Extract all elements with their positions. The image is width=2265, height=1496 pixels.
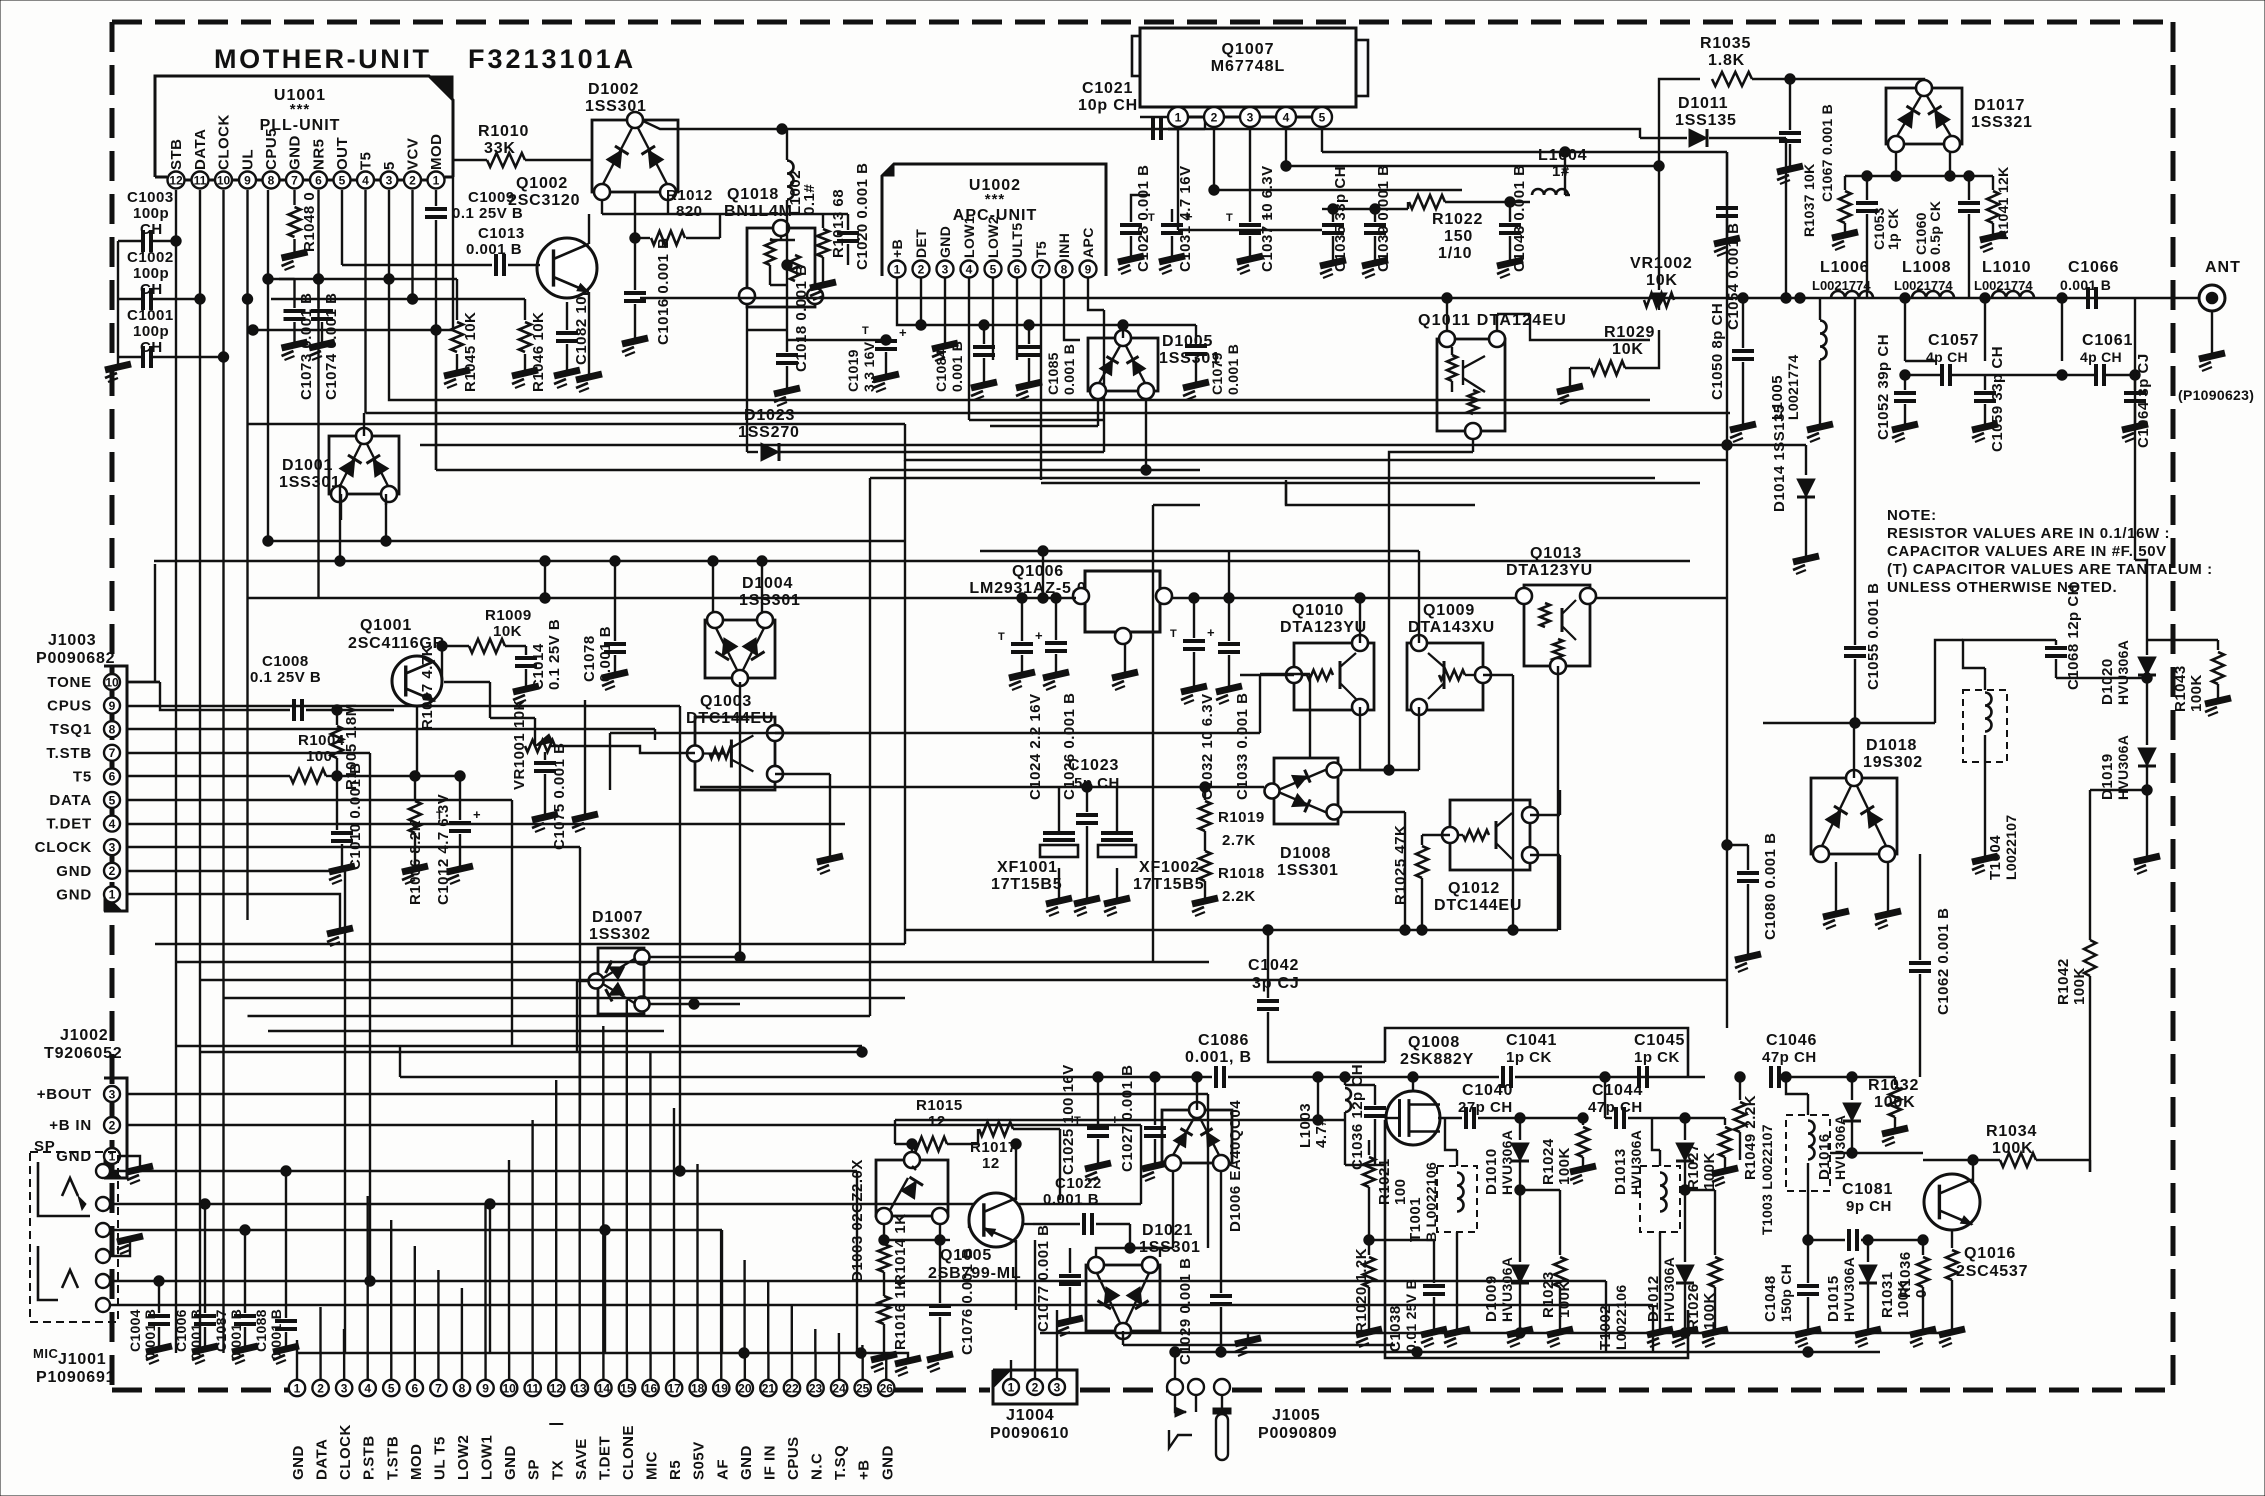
svg-text:R1048 0: R1048 0 [301, 192, 318, 252]
svg-text:R1019: R1019 [1218, 809, 1265, 826]
svg-text:5: 5 [1319, 110, 1326, 124]
svg-text:GND: GND [879, 1445, 896, 1480]
svg-text:C1035 33p CH: C1035 33p CH [1332, 166, 1349, 272]
bottom connector pin 24 (T.SQ) [831, 1380, 847, 1396]
svg-text:R1009: R1009 [485, 607, 532, 624]
svg-text:D1023: D1023 [744, 407, 795, 424]
bottom connector pin 17 (R5) [666, 1380, 682, 1396]
svg-text:+BOUT: +BOUT [37, 1086, 92, 1103]
svg-text:0.001 B: 0.001 B [1061, 344, 1077, 395]
J1003 pin 6 (T5) [104, 768, 120, 784]
svg-text:C1061: C1061 [2082, 332, 2133, 349]
svg-text:J1003: J1003 [48, 632, 97, 649]
ground [273, 1346, 299, 1364]
svg-text:150: 150 [1444, 228, 1473, 245]
ground [1183, 382, 1209, 400]
svg-text:4p CH: 4p CH [1926, 349, 1968, 365]
ground [1497, 260, 1523, 278]
svg-text:2: 2 [1211, 110, 1218, 124]
svg-text:8: 8 [109, 723, 116, 737]
svg-text:TSQ1: TSQ1 [50, 721, 92, 738]
U1001 pin 9 (UL) [239, 172, 256, 189]
svg-text:C1066: C1066 [2068, 259, 2119, 276]
ground [1569, 368, 1571, 388]
svg-text:8: 8 [1061, 262, 1068, 276]
wire bus left terminal [296, 1340, 298, 1353]
svg-text:100K: 100K [2188, 674, 2205, 712]
svg-text:GND: GND [290, 1445, 307, 1480]
bottom connector pin 15 (CLONE) [619, 1380, 635, 1396]
svg-text:C1057: C1057 [1928, 332, 1979, 349]
svg-text:10: 10 [105, 675, 119, 689]
wire [1520, 1117, 1583, 1119]
svg-text:2: 2 [918, 262, 925, 276]
svg-text:C1019: C1019 [845, 349, 861, 392]
bottom connector pin 12 (TX) [548, 1380, 564, 1396]
svg-text:2: 2 [109, 1118, 116, 1132]
svg-text:1SS135: 1SS135 [1675, 112, 1737, 129]
wire vertical drops middle [511, 800, 513, 1046]
wire +BIN [127, 1124, 1141, 1126]
svg-text:Q1003: Q1003 [700, 693, 752, 710]
svg-text:GND: GND [56, 863, 92, 880]
svg-text:MOD: MOD [428, 134, 445, 171]
U1001 pin 12 (STB) [168, 172, 185, 189]
wire vertical bundle from U1001 [175, 241, 177, 1353]
wire D1002 bottom circles to bus [601, 200, 603, 214]
svg-text:C1042: C1042 [1248, 957, 1299, 974]
svg-text:1SS301: 1SS301 [1277, 862, 1339, 879]
svg-text:T: T [1226, 212, 1233, 224]
J1003 pin 8 (TSQ1) [104, 721, 120, 737]
Q1007 pin 3 [1240, 107, 1260, 127]
wire antenna feed vertical [1785, 297, 1787, 299]
ground [774, 388, 800, 406]
wire Q1005 collector [1015, 1240, 1017, 1290]
svg-text:5p CH: 5p CH [1074, 775, 1120, 792]
J1003 pin 10 (TONE) [104, 674, 120, 690]
svg-text:R1018: R1018 [1218, 865, 1265, 882]
wire [1103, 310, 1105, 452]
svg-text:1#: 1# [1552, 163, 1570, 180]
svg-text:C1020 0.001 B: C1020 0.001 B [854, 163, 871, 270]
svg-text:1/10: 1/10 [1438, 245, 1472, 262]
ground [886, 1353, 908, 1360]
wire pins down [1177, 127, 1179, 230]
ground [444, 370, 470, 388]
svg-text:L1003: L1003 [1297, 1103, 1314, 1148]
svg-text:RESISTOR VALUES ARE IN 0.1/16: RESISTOR VALUES ARE IN 0.1/16W : [1887, 525, 2170, 542]
svg-text:24: 24 [832, 1381, 846, 1395]
wire [1196, 1077, 1198, 1110]
svg-text:D1011: D1011 [1678, 95, 1728, 112]
svg-text:C1002: C1002 [127, 249, 174, 266]
svg-text:C1038: C1038 [1387, 1305, 1404, 1352]
svg-text:LOW2: LOW2 [985, 216, 1001, 258]
microphone capsule symbol [1195, 1395, 1197, 1412]
wire right column [1854, 298, 1856, 645]
svg-text:TX: TX [549, 1460, 566, 1480]
svg-text:NR5: NR5 [311, 138, 328, 170]
bottom connector pin 26 (GND) [878, 1380, 894, 1396]
wire [1214, 189, 1462, 191]
svg-text:4p CH: 4p CH [2080, 349, 2122, 365]
ground [513, 686, 539, 704]
wire Q1011 bottom [1472, 439, 1474, 452]
svg-text:3: 3 [942, 262, 949, 276]
svg-text:CPUS: CPUS [785, 1436, 802, 1480]
svg-text:21: 21 [762, 1381, 776, 1395]
wire [1369, 1239, 1434, 1241]
svg-text:(T) CAPACITOR VALUES ARE TANTA: (T) CAPACITOR VALUES ARE TANTALUM : [1887, 561, 2213, 578]
ground [532, 814, 558, 832]
svg-text:R1049 2.2K: R1049 2.2K [1742, 1095, 1759, 1180]
svg-text:C1059 33p CH: C1059 33p CH [1989, 346, 2006, 452]
svg-text:L0022106: L0022106 [1613, 1285, 1629, 1350]
wire TONE [127, 681, 160, 683]
J1002 pin 1 (GND) [104, 1148, 120, 1164]
svg-text:1p CK: 1p CK [1634, 1049, 1680, 1066]
svg-text:5: 5 [109, 793, 116, 807]
wire J1002 gnd [120, 1156, 140, 1168]
svg-text:NOTE:: NOTE: [1887, 507, 1937, 524]
U1001 pin 7 (GND) [286, 172, 303, 189]
wire Q1009 out [1483, 674, 1513, 676]
bottom connector pin 4 (P.STB) [360, 1380, 376, 1396]
svg-text:Q1013: Q1013 [1530, 545, 1582, 562]
bottom connector pin 11 (SP) [525, 1380, 541, 1396]
wire drops to bottom connector [319, 1307, 321, 1353]
ground [1910, 1329, 1936, 1347]
svg-text:J1004: J1004 [1006, 1407, 1055, 1424]
ground [1702, 1329, 1728, 1347]
svg-text:M67748L: M67748L [1211, 58, 1286, 75]
svg-text:Q1009: Q1009 [1423, 602, 1475, 619]
svg-text:C1045: C1045 [1634, 1032, 1685, 1049]
svg-text:3.3 16V: 3.3 16V [861, 341, 877, 392]
J1003 pin 2 (GND) [104, 863, 120, 879]
wire [650, 956, 740, 958]
ground [512, 370, 538, 388]
ground [971, 382, 997, 400]
ground [117, 1236, 143, 1254]
ground [1074, 898, 1100, 916]
svg-text:C1086: C1086 [1198, 1032, 1249, 1049]
svg-text:***: *** [985, 191, 1006, 208]
svg-text:C1075 0.001 B: C1075 0.001 B [551, 743, 568, 850]
svg-text:0.001, B: 0.001, B [1185, 1049, 1252, 1066]
U1002 pin 6 (ULT5) [1009, 261, 1026, 278]
wire [489, 682, 491, 718]
svg-text:DTA123YU: DTA123YU [1280, 619, 1367, 636]
wire bus2 [1175, 1351, 1880, 1353]
svg-text:T: T [1170, 628, 1177, 640]
svg-text:GND: GND [738, 1445, 755, 1480]
svg-text:MIC: MIC [644, 1451, 661, 1480]
svg-text:26: 26 [880, 1381, 894, 1395]
svg-text:0: 0 [1913, 1289, 1930, 1298]
svg-text:9: 9 [482, 1381, 489, 1395]
wire [248, 597, 1076, 599]
svg-text:HVU306A: HVU306A [1628, 1130, 1644, 1195]
ground [554, 370, 580, 388]
svg-text:SP: SP [526, 1459, 543, 1480]
svg-text:3: 3 [1247, 110, 1254, 124]
svg-text:R1043: R1043 [2172, 665, 2189, 712]
svg-text:N.C: N.C [809, 1453, 826, 1480]
ground [602, 672, 628, 690]
wire Q1013 emitter down [1557, 666, 1559, 930]
wire [787, 339, 886, 341]
svg-text:STB: STB [168, 139, 185, 171]
svg-text:L0022107: L0022107 [2003, 815, 2019, 880]
svg-text:LM2931AZ-5.0: LM2931AZ-5.0 [969, 580, 1086, 597]
svg-text:J1005: J1005 [1272, 1407, 1321, 1424]
U1001 pin 10 (CLOCK) [215, 172, 232, 189]
wire MIC sleeve [110, 1304, 1653, 1306]
ground [810, 282, 836, 300]
svg-text:C1023: C1023 [1068, 757, 1119, 774]
svg-text:R1024: R1024 [1540, 1138, 1557, 1185]
svg-text:R1045 10K: R1045 10K [462, 312, 479, 392]
svg-text:***: *** [290, 101, 311, 118]
svg-text:1: 1 [894, 262, 901, 276]
bottom connector pin 2 (DATA) [312, 1380, 328, 1396]
svg-text:C1036 12p CH: C1036 12p CH [1349, 1064, 1366, 1170]
ground [1807, 424, 1833, 442]
ground [576, 374, 602, 392]
svg-text:ANT: ANT [2205, 259, 2241, 276]
svg-text:C1041: C1041 [1506, 1032, 1557, 1049]
bottom connector pin 23 (N.C) [807, 1380, 823, 1396]
svg-text:Q1018: Q1018 [727, 186, 779, 203]
svg-text:C1016 0.001 B: C1016 0.001 B [655, 238, 672, 345]
svg-text:P1090691: P1090691 [36, 1369, 115, 1386]
svg-text:2.2K: 2.2K [1222, 888, 1256, 905]
ground [1362, 260, 1388, 278]
wire Q1006 gnd [1124, 644, 1126, 674]
U1001 pin 2 (VCV) [404, 172, 421, 189]
svg-text:C1022: C1022 [1055, 1175, 1102, 1192]
node junctions on antenna line [1900, 293, 1910, 303]
svg-text:13: 13 [573, 1381, 587, 1395]
wire [1727, 844, 1748, 846]
svg-text:CLOCK: CLOCK [337, 1424, 354, 1480]
wire rx column [2134, 361, 2136, 560]
wire Q1007 pin1 left [1140, 116, 1168, 118]
ground [1507, 1329, 1533, 1347]
svg-text:+: + [1185, 209, 1193, 224]
svg-text:1: 1 [109, 888, 116, 902]
svg-text:47p CH: 47p CH [1762, 1049, 1817, 1066]
wire Q1016 collector [1972, 1160, 1974, 1182]
svg-text:C1085: C1085 [1045, 352, 1061, 395]
ground [1216, 686, 1242, 704]
ground [127, 1166, 153, 1184]
svg-text:L1010: L1010 [1982, 259, 2031, 276]
svg-text:R1046 10K: R1046 10K [530, 312, 547, 392]
svg-text:CLOCK: CLOCK [216, 114, 233, 170]
svg-text:C1027 0.001 B: C1027 0.001 B [1119, 1065, 1136, 1172]
earphone plug symbol [1175, 1395, 1186, 1412]
svg-text:T: T [998, 631, 1005, 643]
svg-text:LOW1: LOW1 [961, 216, 977, 258]
svg-text:D1020: D1020 [2099, 658, 2116, 705]
wire stair from APC [905, 424, 1727, 460]
svg-text:+: + [473, 807, 481, 822]
svg-text:1: 1 [433, 173, 440, 187]
svg-text:2SC3120: 2SC3120 [508, 192, 580, 209]
svg-text:0.01 25V B: 0.01 25V B [1403, 1279, 1419, 1352]
wire [1122, 325, 1124, 338]
svg-text:+B: +B [856, 1459, 873, 1480]
svg-text:9: 9 [1085, 262, 1092, 276]
svg-text:1: 1 [294, 1381, 301, 1395]
svg-text:20: 20 [738, 1381, 752, 1395]
svg-text:100p: 100p [133, 323, 169, 340]
svg-text:Q1007: Q1007 [1221, 41, 1274, 58]
svg-text:CLOCK: CLOCK [35, 839, 92, 856]
wire [1285, 483, 1287, 505]
svg-text:C1062 0.001 B: C1062 0.001 B [1935, 908, 1952, 1015]
ground [1855, 1329, 1881, 1347]
bottom connector pin 8 (LOW2) [454, 1380, 470, 1396]
svg-text:5: 5 [388, 1381, 395, 1395]
svg-text:10: 10 [502, 1381, 516, 1395]
svg-text:R1027: R1027 [1685, 1143, 1702, 1190]
svg-text:DTA143XU: DTA143XU [1408, 619, 1495, 636]
ground [932, 343, 958, 361]
ground [1835, 862, 1837, 912]
IC U1002 APC-UNIT block [882, 164, 1106, 276]
svg-text:C1052 39p CH: C1052 39p CH [1875, 334, 1892, 440]
wire [337, 775, 415, 777]
svg-text:17T15B5: 17T15B5 [991, 876, 1062, 893]
svg-text:T9206052: T9206052 [44, 1045, 122, 1062]
J1003 pin 7 (T.STB) [104, 745, 120, 761]
wire to R1010 [436, 258, 453, 330]
svg-text:4: 4 [362, 173, 369, 187]
wire [2089, 1160, 2091, 1172]
svg-text:10K: 10K [1612, 341, 1644, 358]
svg-text:T: T [1148, 212, 1155, 224]
svg-text:C1077 0.001 B: C1077 0.001 B [1035, 1225, 1052, 1332]
J1003 pin 1 (GND) [104, 886, 120, 902]
svg-text:R1010: R1010 [478, 123, 529, 140]
wire bus stubs to pins [296, 1353, 298, 1380]
svg-text:23: 23 [809, 1381, 823, 1395]
ground [282, 252, 308, 270]
wire +BOUT [127, 1093, 1208, 1095]
svg-text:17T15B5: 17T15B5 [1133, 876, 1204, 893]
svg-text:SAVE: SAVE [573, 1438, 590, 1480]
wire J1003 row horizontals [127, 705, 680, 707]
wire apc [1088, 300, 1104, 310]
ground [1118, 256, 1144, 274]
svg-text:HVU306A: HVU306A [1832, 1115, 1848, 1180]
svg-text:7: 7 [291, 173, 298, 187]
wire horizontal upper mids [248, 423, 905, 425]
ground [1972, 424, 1998, 442]
wire pin5 right bus [1322, 151, 1565, 153]
ground [622, 338, 648, 356]
Q1007 pin 4 [1276, 107, 1296, 127]
wire D1002 right to C1021 [643, 121, 782, 129]
svg-text:C1081: C1081 [1842, 1181, 1893, 1198]
wire rf bottom bus [1040, 1332, 1952, 1334]
svg-text:0.001 B: 0.001 B [2060, 277, 2111, 293]
svg-text:C1004: C1004 [127, 1309, 143, 1352]
svg-text:D1015: D1015 [1825, 1275, 1842, 1322]
svg-text:0.1#: 0.1# [801, 184, 818, 215]
svg-text:L1008: L1008 [1902, 259, 1951, 276]
wire [884, 1239, 940, 1241]
svg-text:+: + [1263, 209, 1271, 224]
svg-text:6: 6 [109, 770, 116, 784]
ground [1735, 954, 1761, 972]
U1001 pin 11 (DATA) [192, 172, 209, 189]
svg-text:R1035: R1035 [1700, 35, 1751, 52]
svg-text:R1022: R1022 [1432, 211, 1483, 228]
wire [602, 213, 848, 215]
IC Q1007 M67748L block [1140, 28, 1356, 107]
wire [1375, 1164, 1385, 1166]
svg-text:HVU306A: HVU306A [2115, 640, 2131, 705]
svg-text:C1087: C1087 [213, 1309, 229, 1352]
wire [1023, 1223, 1033, 1225]
svg-text:TONE: TONE [47, 674, 92, 691]
svg-text:T5: T5 [73, 768, 92, 785]
wire [895, 1119, 1345, 1121]
wire [363, 425, 365, 436]
svg-text:R1036: R1036 [1897, 1251, 1914, 1298]
wire [415, 775, 460, 777]
bottom connector pin 1 (GND) [289, 1380, 305, 1396]
wire DET down [920, 300, 922, 325]
wire MIC tip [110, 1280, 370, 1282]
svg-text:AF: AF [714, 1459, 731, 1480]
svg-text:Q1012: Q1012 [1448, 880, 1500, 897]
svg-text:DTA123YU: DTA123YU [1506, 562, 1593, 579]
svg-text:T1001: T1001 [1407, 1197, 1424, 1242]
bottom connector pin 21 (IF IN) [760, 1380, 776, 1396]
wire [894, 1120, 896, 1144]
bottom connector pin 9 (LOW1) [477, 1380, 493, 1396]
svg-text:C1088: C1088 [253, 1309, 269, 1352]
svg-text:D1016: D1016 [1816, 1133, 1833, 1180]
U1002 pin 4 (LOW1) [961, 261, 978, 278]
svg-text:D1019: D1019 [2099, 753, 2116, 800]
svg-text:C1076 0.001 B: C1076 0.001 B [959, 1248, 976, 1355]
ground [329, 866, 355, 884]
mic jack [38, 1246, 58, 1300]
svg-text:+: + [1035, 628, 1043, 643]
ground [1832, 232, 1858, 250]
ground [2199, 353, 2225, 371]
U1002 pin 1 (+B) [889, 261, 906, 278]
svg-text:6: 6 [315, 173, 322, 187]
svg-text:T.STB: T.STB [384, 1436, 401, 1480]
svg-text:C1080 0.001 B: C1080 0.001 B [1762, 833, 1779, 940]
Q1007 pin 1 [1168, 107, 1188, 127]
svg-text:12: 12 [550, 1381, 564, 1395]
ground [2122, 424, 2148, 442]
svg-text:8: 8 [268, 173, 275, 187]
wire GND gnd [944, 300, 946, 345]
svg-text:19S302: 19S302 [1863, 754, 1923, 771]
svg-text:DET: DET [913, 229, 929, 258]
svg-text:R1015: R1015 [916, 1097, 963, 1114]
